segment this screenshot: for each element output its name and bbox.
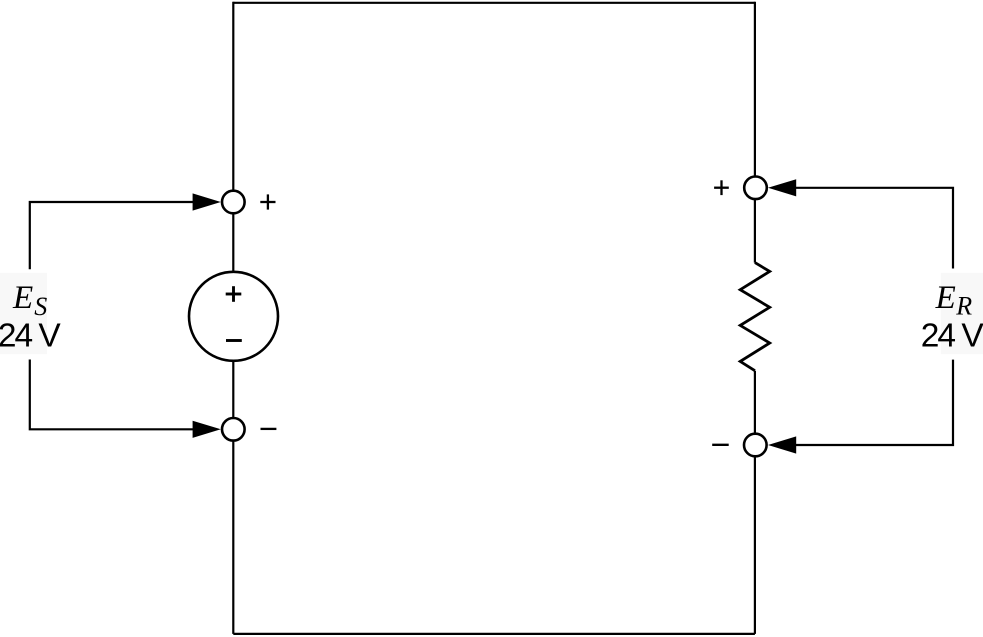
svg-text:24 V: 24 V: [0, 318, 61, 355]
svg-text:R: R: [955, 292, 972, 321]
svg-text:E: E: [12, 280, 33, 316]
svg-text:24 V: 24 V: [921, 318, 983, 355]
svg-text:E: E: [935, 280, 956, 316]
